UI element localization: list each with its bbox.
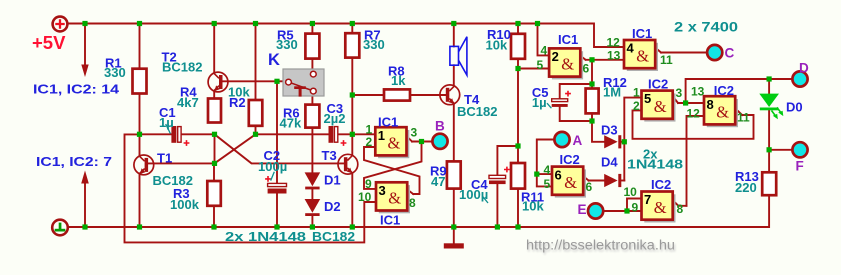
wire R8 left bbox=[352, 94, 384, 96]
wire gate2 pin5 bbox=[518, 68, 549, 70]
wire T2 collector-emitter bbox=[213, 24, 215, 99]
ground symbol bbox=[52, 220, 68, 236]
wire gate7 output tail bbox=[673, 200, 687, 206]
wire gate1 output tail bbox=[407, 136, 433, 142]
svg-text:47: 47 bbox=[431, 174, 445, 189]
svg-text:4: 4 bbox=[541, 44, 548, 58]
svg-text:4k7: 4k7 bbox=[177, 95, 199, 110]
capacitor C5 bbox=[547, 91, 571, 109]
svg-text:10k: 10k bbox=[522, 199, 544, 214]
svg-text:220: 220 bbox=[735, 180, 757, 195]
svg-text:330: 330 bbox=[363, 37, 385, 52]
resistor R4 bbox=[208, 99, 221, 123]
wire gate2 output tail bbox=[580, 56, 624, 60]
svg-text:D2: D2 bbox=[324, 199, 341, 214]
gate IC2 pins 4-5-6 bbox=[552, 167, 586, 198]
svg-text:1k: 1k bbox=[391, 73, 406, 88]
svg-text:BC182: BC182 bbox=[312, 229, 355, 244]
svg-text:T1: T1 bbox=[157, 151, 172, 166]
wire R10-R11 column bbox=[517, 24, 519, 228]
terminal F bbox=[792, 142, 807, 157]
svg-text:1µ: 1µ bbox=[532, 95, 547, 110]
wire gate2 pin4 from rail bbox=[538, 24, 550, 56]
wire C3 to gate1 pin1 bbox=[338, 133, 375, 135]
svg-text:F: F bbox=[796, 159, 804, 174]
wire LED anode bbox=[768, 79, 770, 93]
junction nodes bbox=[82, 21, 771, 230]
svg-text:8: 8 bbox=[409, 196, 416, 210]
wire cathode column to gate5 pin1 bbox=[624, 98, 641, 181]
terminal A bbox=[554, 132, 569, 147]
svg-text:BC182: BC182 bbox=[457, 104, 497, 119]
svg-text:2: 2 bbox=[552, 49, 559, 64]
wire R9 bottom and ground stub bbox=[453, 189, 455, 244]
wire D4 cathode to column bbox=[621, 180, 624, 182]
arrow IC pin7 supply bbox=[81, 171, 89, 184]
gate IC2 pins 13-12-11 bbox=[704, 96, 738, 127]
diode D4 bbox=[604, 174, 617, 187]
svg-text:3: 3 bbox=[379, 183, 386, 198]
svg-text:IC2: IC2 bbox=[651, 177, 671, 192]
wire T2 base to relay node bbox=[223, 80, 277, 82]
wire gate7 out up to gate8 pin12 bbox=[687, 116, 705, 206]
transistor T4 bbox=[440, 85, 460, 105]
svg-text:9: 9 bbox=[632, 201, 639, 215]
svg-text:2 x 7400: 2 x 7400 bbox=[674, 20, 738, 35]
svg-text:&: & bbox=[636, 46, 649, 65]
wire R1 chain bbox=[139, 24, 141, 135]
wire T3 emitter bbox=[351, 174, 353, 227]
resistor R13 bbox=[762, 172, 776, 195]
svg-text:D0: D0 bbox=[786, 100, 803, 115]
svg-text:&: & bbox=[654, 97, 667, 116]
wire bottom ground rail bbox=[68, 226, 769, 228]
wire C4 branch bbox=[497, 146, 518, 227]
wire gate2 out down to R12 bbox=[591, 60, 593, 89]
wire T4 emitter to R9 bbox=[453, 105, 455, 161]
svg-text:+5V: +5V bbox=[32, 32, 66, 53]
svg-text:&: & bbox=[716, 103, 729, 122]
wire R8 right to T4 base bbox=[410, 94, 446, 96]
svg-text:D4: D4 bbox=[601, 155, 618, 170]
svg-text:A: A bbox=[573, 133, 583, 148]
wire D3 cathode to node bbox=[621, 141, 624, 143]
svg-text:11: 11 bbox=[737, 111, 750, 125]
wire C1 horizontal bbox=[140, 133, 215, 135]
transistor T3 bbox=[338, 154, 358, 174]
svg-text:8: 8 bbox=[677, 202, 684, 216]
svg-text:B: B bbox=[435, 119, 445, 134]
terminal B bbox=[432, 134, 447, 149]
terminal C bbox=[707, 45, 722, 60]
svg-text:13: 13 bbox=[691, 85, 705, 99]
wire R12 bottom to D3 bbox=[592, 113, 604, 141]
wire C2 vertical branch bbox=[276, 81, 278, 227]
gate IC1 pins 1-2-3 bbox=[375, 127, 409, 158]
capacitor C3 bbox=[329, 126, 347, 146]
wire R3 chain bbox=[213, 163, 215, 227]
resistor R3 bbox=[207, 181, 221, 206]
wire multivib center vertical bbox=[214, 134, 216, 163]
resistor R7 bbox=[345, 33, 359, 57]
svg-text:http://bsselektronika.hu: http://bsselektronika.hu bbox=[526, 238, 675, 253]
svg-text:1N4148: 1N4148 bbox=[627, 157, 683, 172]
svg-text:2µ2: 2µ2 bbox=[324, 111, 346, 126]
svg-text:100µ: 100µ bbox=[459, 187, 488, 202]
svg-text:&: & bbox=[388, 189, 401, 208]
wire gate4 output to C terminal bbox=[655, 48, 707, 53]
gate IC1 pins 9-10-8 bbox=[376, 182, 410, 213]
resistor R12 bbox=[586, 89, 599, 114]
resistor R5 bbox=[305, 34, 319, 59]
wire gate5 out up to D terminal bbox=[686, 79, 793, 103]
wire IC supply pin7 riser bbox=[84, 183, 86, 227]
svg-text:6: 6 bbox=[555, 167, 562, 182]
diode D1 bbox=[305, 172, 321, 186]
svg-text:IC2: IC2 bbox=[714, 83, 734, 98]
capacitor C1 bbox=[166, 124, 190, 146]
wire IC supply pin14 drop bbox=[84, 24, 86, 67]
svg-text:7: 7 bbox=[644, 192, 651, 207]
resistor R9 bbox=[447, 161, 461, 188]
wire T1 base bbox=[148, 162, 214, 164]
power symbol +5V bbox=[53, 17, 68, 32]
terminal D bbox=[792, 71, 807, 86]
wire gate6 output to D4 anode bbox=[583, 176, 604, 180]
wire gate1 out to gate3 pin9 bbox=[364, 142, 422, 189]
wire R7 chain bbox=[351, 24, 353, 135]
wire gate1 pin2 feedback from gate3 out bbox=[364, 147, 420, 194]
svg-text:IC1: IC1 bbox=[378, 115, 398, 130]
svg-text:8: 8 bbox=[707, 97, 714, 112]
svg-text:4: 4 bbox=[627, 41, 635, 56]
wire cross diagonal to T1 base node bbox=[215, 134, 256, 163]
relay K bbox=[283, 69, 324, 97]
arrow IC pin14 supply bbox=[81, 65, 88, 78]
terminal E bbox=[588, 203, 603, 218]
svg-text:E: E bbox=[578, 202, 587, 217]
gate IC1 pins 4-5-6 bbox=[549, 48, 583, 79]
wire T3 collector bbox=[351, 134, 353, 155]
wire LED cathode to F node and R13 bbox=[769, 111, 792, 228]
svg-text:&: & bbox=[654, 198, 667, 217]
wire gate5 output tail bbox=[673, 96, 704, 103]
gate IC2 pins 1-2-3 bbox=[642, 91, 676, 122]
svg-text:IC1, IC2: 7: IC1, IC2: 7 bbox=[36, 154, 112, 169]
wire speaker top bbox=[453, 24, 455, 47]
svg-text:D3: D3 bbox=[601, 123, 618, 138]
ground bar under R9 bbox=[444, 243, 464, 248]
wire R5 chain bbox=[311, 24, 313, 72]
svg-text:13: 13 bbox=[607, 49, 621, 63]
resistor R11 bbox=[511, 163, 525, 189]
svg-text:5: 5 bbox=[544, 177, 551, 191]
svg-text:12: 12 bbox=[687, 107, 701, 121]
svg-text:4: 4 bbox=[544, 163, 551, 177]
svg-text:11: 11 bbox=[660, 53, 673, 67]
svg-text:10: 10 bbox=[624, 185, 638, 199]
svg-text:IC2: IC2 bbox=[560, 152, 580, 167]
svg-text:IC1: IC1 bbox=[558, 32, 578, 47]
svg-text:3: 3 bbox=[676, 86, 683, 100]
wire node to C3 bbox=[256, 133, 329, 135]
transistor T1 bbox=[134, 155, 154, 175]
svg-text:IC1: IC1 bbox=[380, 213, 400, 228]
svg-text:D1: D1 bbox=[324, 173, 341, 188]
svg-text:2: 2 bbox=[633, 99, 640, 113]
svg-text:100µ: 100µ bbox=[258, 159, 287, 174]
svg-text:3: 3 bbox=[411, 126, 418, 140]
wire C5 bottom branch bbox=[560, 107, 592, 121]
wire R2 chain bbox=[255, 24, 257, 135]
svg-text:2x 1N4148: 2x 1N4148 bbox=[225, 229, 306, 244]
svg-text:&: & bbox=[564, 173, 577, 192]
resistor R10 bbox=[511, 34, 525, 59]
svg-text:&: & bbox=[388, 134, 401, 153]
wire cross diagonal to T3 base bbox=[215, 134, 345, 163]
wire gate5 pin2 feedback loop from gate8 out bbox=[633, 109, 754, 139]
svg-text:IC1: IC1 bbox=[632, 26, 652, 41]
capacitor C2 bbox=[265, 172, 286, 194]
transistor T2 bbox=[208, 72, 228, 92]
resistor R6 bbox=[305, 105, 319, 128]
resistor R1 bbox=[133, 69, 147, 94]
svg-text:6: 6 bbox=[583, 62, 590, 76]
wire gate3 pin10 feedback loop under rail to T1 collector node bbox=[125, 134, 377, 242]
svg-text:1: 1 bbox=[633, 86, 640, 100]
wire D1-D2 junction bbox=[311, 189, 313, 227]
svg-text:5: 5 bbox=[644, 91, 651, 106]
svg-text:47k: 47k bbox=[280, 116, 302, 131]
speaker bbox=[450, 37, 467, 75]
svg-text:IC1, IC2: 14: IC1, IC2: 14 bbox=[33, 82, 120, 97]
gate IC1 pins 12-13-11 bbox=[624, 40, 658, 71]
wire T1 collector-emitter bbox=[139, 134, 141, 227]
svg-text:10k: 10k bbox=[486, 37, 508, 52]
svg-text:C: C bbox=[725, 46, 735, 61]
resistor R8 horizontal bbox=[384, 89, 410, 100]
svg-text:D: D bbox=[799, 61, 809, 76]
wire E terminal to gate7 pins bbox=[604, 199, 642, 212]
wire relay node to contact bbox=[277, 80, 286, 82]
svg-text:K: K bbox=[268, 51, 280, 69]
svg-text:2: 2 bbox=[366, 135, 373, 149]
resistor R2 bbox=[249, 100, 262, 126]
wire R6 chain bbox=[311, 94, 313, 172]
diode D3 bbox=[604, 135, 617, 148]
svg-text:1: 1 bbox=[378, 128, 385, 143]
gate IC2 pins 10-9-8 bbox=[642, 192, 676, 223]
diode D2 bbox=[305, 199, 321, 213]
svg-text:330: 330 bbox=[104, 65, 126, 80]
svg-text:6: 6 bbox=[586, 180, 593, 194]
capacitor C4 bbox=[483, 167, 510, 203]
svg-text:T3: T3 bbox=[322, 148, 337, 163]
wire A terminal to gate6 inputs bbox=[537, 140, 554, 187]
svg-text:100k: 100k bbox=[170, 197, 200, 212]
svg-text:&: & bbox=[561, 55, 574, 74]
wire top +5V rail bbox=[66, 24, 624, 48]
svg-text:R2: R2 bbox=[229, 95, 246, 110]
svg-text:IC2: IC2 bbox=[648, 76, 668, 91]
svg-text:330: 330 bbox=[276, 37, 298, 52]
svg-text:1M: 1M bbox=[603, 85, 621, 100]
wire speaker to T4 collector bbox=[453, 65, 455, 84]
svg-text:10: 10 bbox=[358, 190, 372, 204]
svg-text:BC182: BC182 bbox=[162, 60, 202, 75]
wire C5 top branch bbox=[560, 84, 592, 99]
LED D0 bbox=[759, 94, 783, 120]
svg-text:9: 9 bbox=[365, 177, 372, 191]
svg-text:5: 5 bbox=[537, 58, 544, 72]
svg-text:12: 12 bbox=[607, 36, 621, 50]
svg-text:1µ: 1µ bbox=[159, 115, 174, 130]
